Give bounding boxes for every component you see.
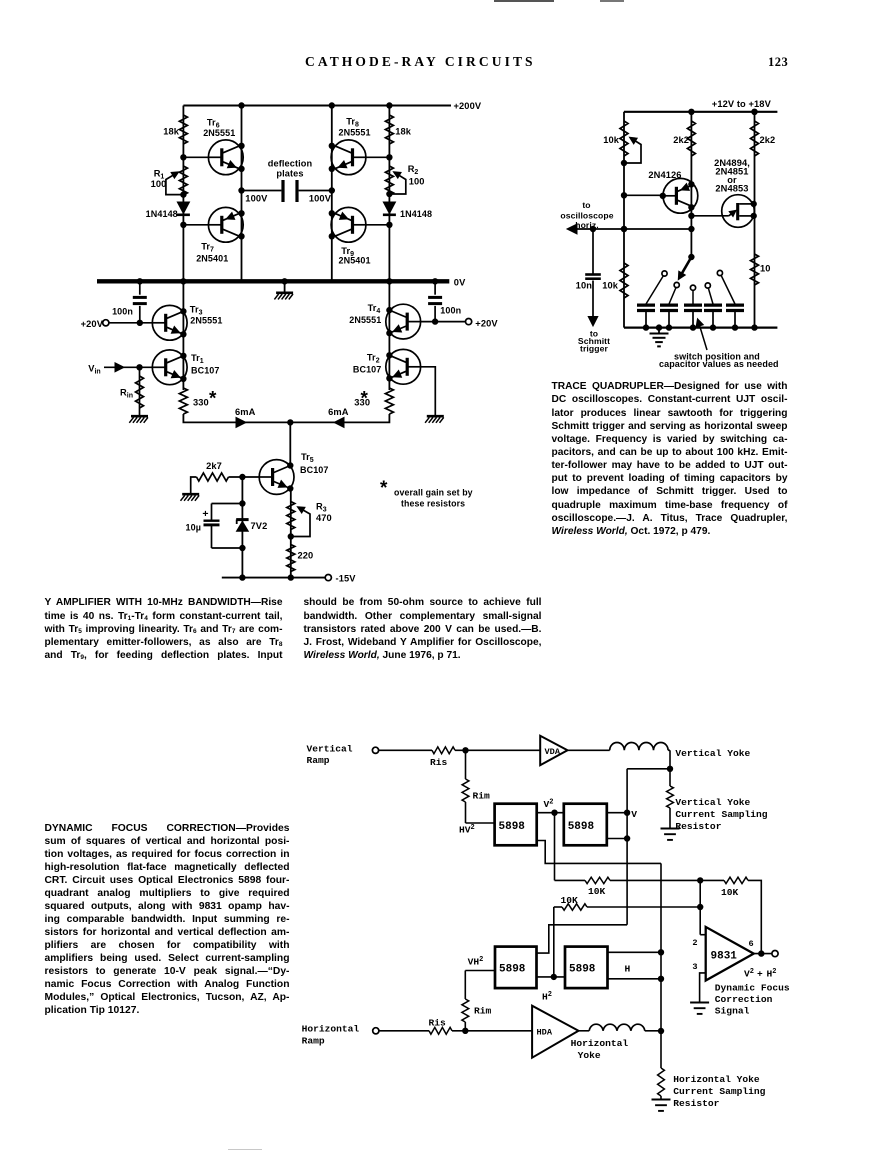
svg-text:Horizontal: Horizontal bbox=[302, 1024, 360, 1035]
svg-text:these resistors: these resistors bbox=[401, 499, 465, 509]
svg-text:5898: 5898 bbox=[499, 964, 526, 976]
svg-text:2N5551: 2N5551 bbox=[349, 315, 381, 325]
svg-text:Ramp: Ramp bbox=[307, 755, 330, 766]
svg-text:2N5551: 2N5551 bbox=[190, 316, 222, 326]
svg-text:220: 220 bbox=[298, 551, 314, 561]
svg-text:to: to bbox=[582, 200, 590, 210]
svg-text:2k7: 2k7 bbox=[206, 461, 222, 471]
svg-text:10µ: 10µ bbox=[186, 523, 202, 533]
svg-text:Resistor: Resistor bbox=[675, 821, 721, 832]
svg-text:H2: H2 bbox=[542, 991, 552, 1003]
svg-text:10K: 10K bbox=[588, 886, 606, 897]
svg-text:2N4853: 2N4853 bbox=[715, 184, 748, 194]
svg-text:R3: R3 bbox=[316, 502, 327, 514]
svg-text:Yoke: Yoke bbox=[578, 1050, 601, 1061]
svg-text:100n: 100n bbox=[440, 306, 461, 316]
svg-text:R2: R2 bbox=[408, 164, 419, 176]
svg-text:Horizontal: Horizontal bbox=[571, 1038, 629, 1049]
svg-text:0V: 0V bbox=[454, 278, 466, 288]
svg-text:Horizontal Yoke: Horizontal Yoke bbox=[673, 1074, 760, 1085]
svg-text:330: 330 bbox=[193, 398, 209, 408]
svg-text:HV2: HV2 bbox=[459, 824, 475, 836]
svg-text:100: 100 bbox=[151, 179, 167, 189]
svg-text:Resistor: Resistor bbox=[673, 1098, 719, 1109]
svg-text:*: * bbox=[380, 478, 388, 499]
svg-text:2N4126: 2N4126 bbox=[648, 170, 681, 180]
svg-text:Ramp: Ramp bbox=[302, 1036, 325, 1047]
svg-text:Tr1: Tr1 bbox=[191, 353, 204, 365]
svg-text:2k2: 2k2 bbox=[760, 135, 776, 145]
svg-text:Vertical Yoke: Vertical Yoke bbox=[675, 797, 750, 808]
svg-text:3: 3 bbox=[692, 962, 697, 972]
svg-text:BC107: BC107 bbox=[353, 365, 382, 375]
svg-text:6: 6 bbox=[749, 939, 754, 949]
svg-text:Correction: Correction bbox=[715, 994, 773, 1005]
svg-text:Tr4: Tr4 bbox=[368, 303, 381, 315]
svg-text:10K: 10K bbox=[561, 895, 579, 906]
svg-text:-15V: -15V bbox=[336, 574, 357, 584]
svg-text:+20V: +20V bbox=[81, 319, 104, 329]
svg-text:100V: 100V bbox=[309, 193, 332, 203]
svg-text:Rin: Rin bbox=[120, 388, 133, 400]
svg-text:10K: 10K bbox=[721, 887, 739, 898]
svg-text:5898: 5898 bbox=[569, 964, 596, 976]
svg-text:BC107: BC107 bbox=[300, 465, 329, 475]
svg-text:+12V to +18V: +12V to +18V bbox=[712, 99, 772, 109]
svg-text:Tr5: Tr5 bbox=[301, 452, 314, 464]
svg-text:100V: 100V bbox=[245, 193, 268, 203]
svg-text:9831: 9831 bbox=[711, 951, 738, 963]
svg-text:*: * bbox=[209, 389, 217, 410]
svg-text:Signal: Signal bbox=[715, 1006, 750, 1017]
svg-text:5898: 5898 bbox=[499, 821, 526, 833]
svg-text:Ris: Ris bbox=[429, 1018, 447, 1029]
svg-text:Vertical Yoke: Vertical Yoke bbox=[675, 748, 750, 759]
svg-text:18k: 18k bbox=[163, 127, 180, 137]
svg-text:Rim: Rim bbox=[473, 791, 491, 802]
svg-text:10: 10 bbox=[760, 264, 771, 274]
svg-text:+: + bbox=[202, 508, 208, 520]
svg-text:*: * bbox=[361, 389, 369, 410]
svg-text:V2: V2 bbox=[744, 968, 754, 980]
svg-text:2N5551: 2N5551 bbox=[339, 128, 371, 138]
svg-text:2N5401: 2N5401 bbox=[339, 255, 371, 265]
svg-text:Ris: Ris bbox=[430, 757, 448, 768]
svg-text:horiz.: horiz. bbox=[575, 220, 599, 230]
svg-text:Rim: Rim bbox=[474, 1006, 492, 1017]
svg-text:10k: 10k bbox=[602, 280, 619, 290]
svg-text:7V2: 7V2 bbox=[251, 521, 268, 531]
svg-text:BC107: BC107 bbox=[191, 366, 220, 376]
svg-text:VDA: VDA bbox=[545, 747, 561, 757]
svg-text:V: V bbox=[631, 809, 637, 820]
svg-text:VH2: VH2 bbox=[468, 956, 484, 968]
svg-text:100: 100 bbox=[409, 176, 425, 186]
svg-text:deflection: deflection bbox=[268, 158, 313, 168]
svg-text:+200V: +200V bbox=[454, 101, 482, 111]
svg-text:6mA: 6mA bbox=[235, 407, 256, 417]
svg-text:capacitor values as needed: capacitor values as needed bbox=[659, 359, 779, 369]
svg-text:oscilloscope: oscilloscope bbox=[560, 211, 613, 221]
svg-text:Dynamic Focus: Dynamic Focus bbox=[715, 983, 790, 994]
svg-text:2N5401: 2N5401 bbox=[196, 254, 228, 264]
svg-text:6mA: 6mA bbox=[328, 407, 349, 417]
svg-text:2: 2 bbox=[692, 938, 697, 948]
svg-text:1N4148: 1N4148 bbox=[146, 209, 178, 219]
svg-text:Vertical: Vertical bbox=[307, 744, 353, 755]
svg-text:+20V: +20V bbox=[475, 318, 498, 328]
svg-text:1N4148: 1N4148 bbox=[400, 209, 432, 219]
svg-text:Current Sampling: Current Sampling bbox=[675, 809, 767, 820]
svg-text:Tr2: Tr2 bbox=[367, 353, 380, 365]
svg-text:5898: 5898 bbox=[568, 821, 595, 833]
svg-text:2N5551: 2N5551 bbox=[203, 128, 235, 138]
svg-text:Current Sampling: Current Sampling bbox=[673, 1086, 765, 1097]
svg-text:10k: 10k bbox=[603, 135, 620, 145]
svg-text:2k2: 2k2 bbox=[673, 135, 689, 145]
svg-text:100n: 100n bbox=[112, 307, 133, 317]
svg-text:H: H bbox=[625, 964, 631, 975]
svg-text:10n: 10n bbox=[576, 281, 593, 291]
svg-text:overall gain set by: overall gain set by bbox=[394, 488, 473, 498]
svg-text:18k: 18k bbox=[395, 127, 412, 137]
svg-text:Tr7: Tr7 bbox=[201, 242, 214, 254]
svg-text:470: 470 bbox=[316, 513, 332, 523]
svg-text:plates: plates bbox=[276, 169, 303, 179]
svg-text:H2: H2 bbox=[767, 968, 777, 980]
svg-text:trigger: trigger bbox=[580, 343, 608, 353]
svg-text:HDA: HDA bbox=[537, 1028, 553, 1038]
svg-text:+: + bbox=[757, 969, 763, 980]
svg-text:Vin: Vin bbox=[88, 363, 100, 375]
svg-text:V2: V2 bbox=[544, 799, 554, 811]
